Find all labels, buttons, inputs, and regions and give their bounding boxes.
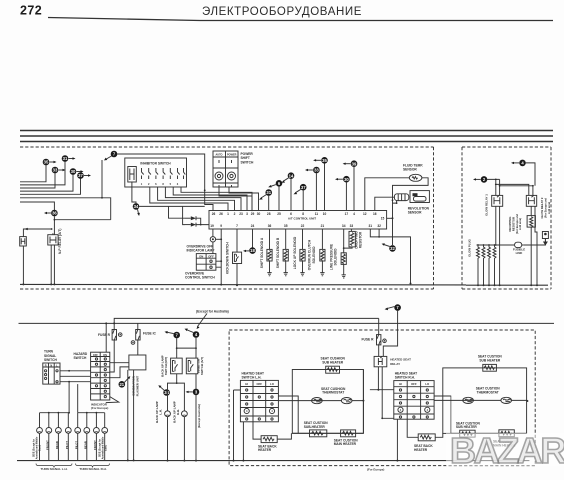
svg-text:33: 33 <box>350 224 354 228</box>
svg-text:18: 18 <box>250 248 255 253</box>
ground bus lower <box>17 460 529 462</box>
svg-text:11: 11 <box>315 212 319 216</box>
wires turn sw to hazard <box>60 371 91 382</box>
wire down to node 32 <box>392 218 394 245</box>
svg-text:SUB HEATER: SUB HEATER <box>322 360 344 364</box>
svg-text:FUSE R: FUSE R <box>362 338 375 342</box>
wire relay X1 to ground bus <box>22 246 24 284</box>
svg-text:FUSE IC: FUSE IC <box>143 332 156 336</box>
svg-text:4: 4 <box>353 212 355 216</box>
inhibitor contacts <box>142 168 186 179</box>
LH top sub heater R3 <box>326 366 340 373</box>
RH switch ground <box>396 419 398 461</box>
svg-text:HEATER: HEATER <box>258 448 272 452</box>
hazard feed wire <box>105 323 107 352</box>
header rule <box>48 18 553 21</box>
ground bus upper <box>20 283 466 286</box>
RH switch outputs <box>434 396 463 400</box>
wire node4 to glow relay 2 <box>526 163 535 186</box>
node 7 <box>104 151 117 161</box>
svg-text:SUB-HEATER: SUB-HEATER <box>304 425 326 429</box>
svg-text:(For Europe): (For Europe) <box>91 406 108 410</box>
feed bus branch <box>114 318 379 323</box>
inhibitor output wires <box>150 187 228 211</box>
glow plug GP2 <box>482 245 485 285</box>
RH thermostat wire <box>463 399 528 401</box>
svg-text:RESISTOR: RESISTOR <box>359 231 363 248</box>
solenoid SOL3 <box>302 229 304 249</box>
node 34 lower <box>176 374 178 383</box>
A/T control unit U1 <box>209 211 387 230</box>
svg-text:8: 8 <box>302 212 304 216</box>
svg-text:A/T CONTROL UNIT: A/T CONTROL UNIT <box>288 217 316 221</box>
svg-text:30: 30 <box>71 169 76 174</box>
dashed border left of glow box <box>461 147 463 289</box>
inhibitor switch (A/T) SW4 <box>186 358 198 374</box>
wire relay feed <box>20 202 54 210</box>
svg-text:OFF: OFF <box>257 382 263 386</box>
feed bus lower <box>19 322 555 324</box>
fuse R drop wire <box>110 340 114 372</box>
svg-text:INHIBITOR SWITCH: INHIBITOR SWITCH <box>140 161 171 165</box>
fusible link F1 <box>512 242 524 247</box>
node 3 <box>195 374 197 389</box>
svg-text:10: 10 <box>323 212 327 216</box>
svg-text:REAR: REAR <box>84 441 88 449</box>
node 4 lower <box>185 329 200 338</box>
wire node7 down to backup lamp switch <box>176 338 178 358</box>
svg-text:21: 21 <box>119 382 124 387</box>
svg-text:FRONT: FRONT <box>93 440 97 450</box>
solenoid SOL4 <box>321 229 323 249</box>
glow plug GP3 <box>488 245 491 285</box>
svg-text:HI: HI <box>245 382 248 386</box>
node 21 <box>119 376 131 388</box>
wires pins 31 32 <box>370 229 379 237</box>
node 34 <box>133 203 140 216</box>
LH seat back heater R6 <box>253 422 291 439</box>
svg-text:cold area): cold area) <box>547 202 551 214</box>
svg-text:N: N <box>50 364 52 367</box>
wire lamp to switch <box>212 242 214 254</box>
solenoid SOL1 <box>269 229 271 249</box>
wires switch to ground <box>216 261 221 267</box>
back up lamp switch SW3 <box>171 358 183 374</box>
svg-text:3: 3 <box>246 212 248 216</box>
RH seat enclosure <box>443 368 527 434</box>
node 35 <box>43 159 57 166</box>
svg-text:36: 36 <box>52 211 57 216</box>
svg-text:SENSOR: SENSOR <box>403 168 417 172</box>
node 18 <box>252 229 254 248</box>
RH bus feed <box>77 384 79 413</box>
wire resistor to ground <box>531 206 537 285</box>
LH seat enclosure <box>292 370 363 434</box>
svg-text:SUB HEATER: SUB HEATER <box>479 359 501 363</box>
svg-text:26: 26 <box>219 212 223 216</box>
top bus line 3 <box>20 141 553 143</box>
svg-text:PILOT: PILOT <box>75 441 79 450</box>
svg-text:OFF: OFF <box>93 354 98 357</box>
LH lamp bus <box>40 412 70 414</box>
wires relay1 to bus <box>496 206 500 285</box>
svg-text:26: 26 <box>212 212 216 216</box>
overdrive control switch SW1 <box>196 254 216 271</box>
svg-text:33: 33 <box>53 168 58 173</box>
svg-text:LINK: LINK <box>516 251 524 255</box>
svg-text:32: 32 <box>390 246 395 251</box>
top bus line 2 <box>20 135 553 137</box>
RH main heater R9 <box>499 430 514 437</box>
svg-text:31: 31 <box>266 190 271 195</box>
diode D1 <box>185 217 191 219</box>
svg-text:7: 7 <box>236 224 238 228</box>
RH thermostat 2 <box>501 397 512 403</box>
brace TURN SIGNAL L.H <box>36 464 72 468</box>
wire to left relay <box>23 229 51 237</box>
svg-text:LOCK UP SOLENOID: LOCK UP SOLENOID <box>293 236 297 269</box>
node 35b <box>313 157 328 164</box>
svg-text:28: 28 <box>267 212 271 216</box>
svg-text:KICKDOWN SWITCH: KICKDOWN SWITCH <box>226 242 230 275</box>
svg-text:GLOW RELAY 2: GLOW RELAY 2 <box>540 197 544 218</box>
svg-text:R.H.: R.H. <box>176 409 180 415</box>
dashed border bottom left box <box>20 288 434 290</box>
RH thermostat 1 <box>463 397 474 403</box>
glow plug GP4 <box>493 245 496 285</box>
glow plug bus <box>477 244 515 246</box>
node 37b <box>294 184 307 194</box>
node 39 <box>343 160 358 167</box>
node 31 <box>62 155 76 162</box>
flasher ground wires <box>128 370 134 461</box>
svg-text:31: 31 <box>369 224 373 228</box>
svg-text:(Except for Australia): (Except for Australia) <box>196 310 229 314</box>
wire bus left 4 <box>20 175 73 192</box>
wire pin7 kickdown <box>236 229 238 252</box>
relay X1 <box>20 237 27 246</box>
power shift switch box <box>213 151 238 187</box>
wire sensor left to pin12 <box>365 178 410 211</box>
svg-text:SWITCH (A/T): SWITCH (A/T) <box>200 357 204 375</box>
svg-text:RELAY: RELAY <box>390 362 400 366</box>
svg-text:SIDE (Except for: SIDE (Except for <box>33 439 36 457</box>
fuse R seat F4 <box>378 318 380 334</box>
dashed seat heater box <box>229 330 535 466</box>
svg-text:17: 17 <box>345 212 349 216</box>
wire bus left 5 <box>20 179 81 195</box>
svg-text:INDICATOR LAMP: INDICATOR LAMP <box>187 249 216 253</box>
dropping resistor R2 <box>530 206 532 215</box>
svg-text:SWITCH: SWITCH <box>241 160 254 164</box>
fluid temp sensor TH1 <box>409 174 422 181</box>
top pin labels <box>212 212 377 216</box>
node 2 <box>473 176 487 183</box>
svg-text:30: 30 <box>344 177 349 182</box>
LH thermostat 2 <box>341 398 352 404</box>
svg-text:35: 35 <box>322 158 327 163</box>
node 14 <box>281 172 294 182</box>
turn signal lamps L1-L8 <box>37 413 108 461</box>
dashed border right of left box <box>433 147 435 289</box>
svg-text:HI: HI <box>399 382 402 386</box>
top bus line 1 <box>20 130 553 132</box>
wire node36 down <box>54 216 110 235</box>
wire lamp-pin9 link <box>216 238 222 240</box>
wire pin9 down <box>220 229 222 285</box>
svg-text:25: 25 <box>277 212 281 216</box>
wire sensor right loop <box>393 178 429 219</box>
flasher feed from fuse IC <box>137 340 139 355</box>
svg-text:29: 29 <box>251 212 255 216</box>
node 7 seat <box>385 304 401 311</box>
svg-text:East): East) <box>39 445 42 451</box>
watermark BAZAR <box>446 430 564 471</box>
LH switch grounds <box>234 390 244 461</box>
svg-text:OFF: OFF <box>411 382 417 386</box>
brace TURN SIGNAL R.H <box>76 464 110 468</box>
svg-text:24: 24 <box>251 224 255 228</box>
svg-text:SOLENOID: SOLENOID <box>334 248 338 266</box>
LH bottom heater wire <box>292 370 363 434</box>
svg-text:Australia and Middle: Australia and Middle <box>102 436 105 459</box>
svg-text:21: 21 <box>321 224 325 228</box>
fuse R F2 <box>113 323 115 329</box>
svg-text:22: 22 <box>301 224 305 228</box>
svg-text:RESISTOR: RESISTOR <box>511 217 515 231</box>
RH bottom heater wire <box>451 432 527 434</box>
RH lamp bus <box>78 412 105 414</box>
wire stub to node 7 <box>101 160 103 198</box>
LH main heater R5 <box>341 430 356 437</box>
wire fuse to relay <box>378 345 380 357</box>
svg-text:cold area): cold area) <box>518 218 522 230</box>
svg-text:272: 272 <box>20 4 42 18</box>
relay N-P RELAY (A/T) <box>48 233 58 245</box>
svg-text:37: 37 <box>78 173 83 178</box>
svg-text:SHIFT SOLENOID A: SHIFT SOLENOID A <box>260 237 264 268</box>
node 32 <box>382 243 396 252</box>
svg-text:SWITCH: SWITCH <box>44 358 57 362</box>
svg-text:N-P RELAY (A/T): N-P RELAY (A/T) <box>58 229 62 254</box>
wire bus left 3 <box>20 173 55 188</box>
node 4 <box>511 160 526 167</box>
wire node4 down to inhibitor <box>177 338 196 359</box>
node 7 lower <box>165 331 181 338</box>
svg-text:19: 19 <box>210 224 214 228</box>
wire node2 to glow relay 1 <box>487 179 500 195</box>
node 30 <box>70 168 84 175</box>
wire bus left 6 <box>20 198 111 220</box>
glow relay 2 K2 <box>526 195 536 206</box>
svg-text:37: 37 <box>301 185 306 190</box>
svg-text:31: 31 <box>63 156 68 161</box>
svg-text:1: 1 <box>227 212 229 216</box>
wire bus left 1 <box>20 165 46 182</box>
wire node7 down <box>383 311 397 357</box>
svg-text:FRONT: FRONT <box>46 440 50 450</box>
LH thermostat wire <box>311 400 363 402</box>
LH thermostat 1 <box>312 398 323 404</box>
node 6 <box>268 180 282 187</box>
svg-text:CONTROL SWITCH: CONTROL SWITCH <box>185 276 215 280</box>
wire pin15 out <box>387 217 393 219</box>
svg-text:35: 35 <box>44 160 49 165</box>
svg-text:34: 34 <box>342 224 346 228</box>
svg-text:9: 9 <box>220 224 222 228</box>
glow plug GP1 <box>477 245 480 285</box>
svg-text:TURN SIGNAL R.H.: TURN SIGNAL R.H. <box>79 467 106 471</box>
wire node34 right <box>139 205 205 207</box>
wire relay N-P to ground <box>51 245 54 284</box>
back up lamp RH <box>182 411 188 417</box>
svg-text:34: 34 <box>134 204 139 209</box>
LH sub-heater R4 <box>310 430 327 437</box>
svg-text:39: 39 <box>352 161 357 166</box>
svg-text:BAZAR: BAZAR <box>450 430 564 471</box>
svg-text:SWITCH (M/T): SWITCH (M/T) <box>164 357 168 376</box>
svg-text:2: 2 <box>234 212 236 216</box>
RH seat back heater R10 <box>407 419 443 437</box>
wire pin19 to lamp <box>212 229 214 237</box>
RH sub-heater R8 <box>460 430 475 437</box>
svg-text:33: 33 <box>314 168 319 173</box>
node 31b <box>259 189 272 199</box>
svg-text:L.H.: L.H. <box>159 409 163 415</box>
wire down to LH lamp bus <box>68 382 70 413</box>
svg-text:MAIN HEATER: MAIN HEATER <box>334 442 357 446</box>
svg-text:15: 15 <box>381 217 385 221</box>
svg-text:ON: ON <box>103 354 107 357</box>
node 33b <box>305 167 320 174</box>
O/D OFF indicator lamp <box>210 237 215 242</box>
svg-text:THERMOSTAT: THERMOSTAT <box>322 391 344 395</box>
dropping resistor R1 <box>350 229 352 231</box>
revolution sensor G1 <box>410 191 429 203</box>
RH top sub heater R7 <box>483 364 497 371</box>
link wires relay1-relay2 <box>496 184 533 195</box>
svg-text:23: 23 <box>239 212 243 216</box>
svg-text:14: 14 <box>289 173 294 178</box>
svg-text:12: 12 <box>363 212 367 216</box>
svg-text:HEATER: HEATER <box>414 448 428 452</box>
wire node3 to ground <box>195 395 197 461</box>
svg-text:SOLENOID: SOLENOID <box>312 246 316 264</box>
svg-text:OFF: OFF <box>208 254 214 258</box>
relay outputs <box>370 367 394 390</box>
svg-text:SUB HEATER: SUB HEATER <box>456 425 478 429</box>
LH switch outputs right <box>278 396 311 433</box>
svg-text:16: 16 <box>373 212 377 216</box>
diode D2 <box>185 224 191 226</box>
svg-text:SWITCH L.H.: SWITCH L.H. <box>242 375 262 379</box>
svg-text:35: 35 <box>284 224 288 228</box>
revolution sensor connector <box>394 194 408 201</box>
wires connector to pins <box>375 197 395 210</box>
svg-text:R: R <box>45 364 47 367</box>
fuse IC F3 <box>137 323 139 329</box>
heated seat relay K3 <box>374 356 387 366</box>
bottom pin labels <box>210 224 381 228</box>
svg-text:32: 32 <box>377 224 381 228</box>
svg-text:East): East) <box>105 445 108 451</box>
svg-text:SIDE (Except for: SIDE (Except for <box>99 439 102 457</box>
svg-text:(Except Australia): (Except Australia) <box>197 404 201 428</box>
svg-text:FLASHER UNIT: FLASHER UNIT <box>135 375 139 396</box>
dashed section border top <box>20 146 434 148</box>
svg-text:(For Europe): (For Europe) <box>367 467 384 471</box>
back up lamp LH <box>165 411 171 417</box>
kickdown switch SW2 <box>233 252 242 263</box>
wire to ground right <box>379 237 410 284</box>
svg-text:SENSOR: SENSOR <box>408 211 422 215</box>
node 30b <box>335 176 350 183</box>
svg-text:SWITCH: SWITCH <box>74 356 87 360</box>
node 37 <box>77 172 91 179</box>
svg-text:6: 6 <box>290 212 292 216</box>
svg-text:POWER: POWER <box>227 154 237 157</box>
solenoid SOL5 line pressure <box>343 229 345 253</box>
svg-text:30: 30 <box>257 212 261 216</box>
power shift output wires <box>219 187 259 211</box>
dashed border right glow box <box>550 147 552 289</box>
svg-text:ON: ON <box>199 254 203 258</box>
svg-text:GLOW PLUG: GLOW PLUG <box>468 238 472 257</box>
svg-text:TURN SIGNAL L.H.: TURN SIGNAL L.H. <box>41 467 68 471</box>
svg-text:GLOW RELAY 1: GLOW RELAY 1 <box>485 194 489 216</box>
flasher to hazard wires <box>110 363 129 378</box>
wire bus left 2 <box>20 162 65 185</box>
wire diode feeds <box>169 206 186 224</box>
node 33 <box>52 167 66 174</box>
glow relay 1 K1 <box>492 195 503 206</box>
svg-text:Australia and Middle: Australia and Middle <box>36 436 39 459</box>
ground bus glow <box>466 284 548 286</box>
wire kickdown to ground <box>236 264 238 286</box>
dashed border bottom glow box <box>462 288 551 290</box>
svg-text:36: 36 <box>268 224 272 228</box>
backup lamp wires <box>168 383 185 411</box>
wire node7 to A/T <box>117 154 213 211</box>
svg-text:REAR: REAR <box>55 441 59 449</box>
wire inhibitor small box down <box>132 182 136 203</box>
combination flasher unit U2 <box>129 355 146 370</box>
lamp wires to ground <box>168 417 185 461</box>
svg-text:THERMOSTAT: THERMOSTAT <box>477 390 499 394</box>
svg-text:SHIFT SOLENOID B: SHIFT SOLENOID B <box>276 237 280 268</box>
svg-text:AUTO: AUTO <box>215 154 222 157</box>
svg-text:34: 34 <box>164 390 169 395</box>
svg-text:PILOT: PILOT <box>65 441 69 450</box>
battery feed B1 <box>524 239 546 246</box>
svg-text:SWITCH R.H.: SWITCH R.H. <box>395 376 415 380</box>
solenoid SOL2 <box>285 229 287 249</box>
inhibitor switch box <box>125 158 187 187</box>
svg-text:ЭЛЕКТРООБОРУДОВАНИЕ: ЭЛЕКТРООБОРУДОВАНИЕ <box>202 6 362 18</box>
node 36 <box>44 210 58 217</box>
svg-text:FUSE R: FUSE R <box>98 333 111 337</box>
